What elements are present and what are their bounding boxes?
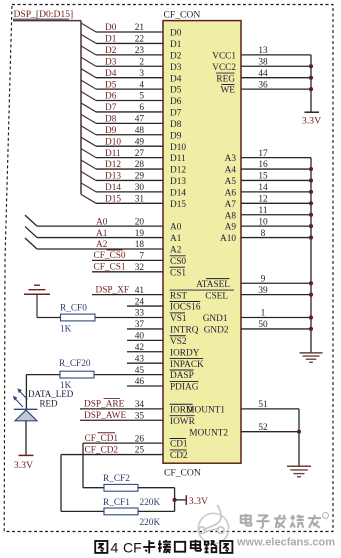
wire D12 (pin 28) with bus entry — [81, 160, 186, 176]
wire A0 (pin 20) — [25, 215, 182, 233]
svg-text:VCC1: VCC1 — [212, 51, 236, 61]
svg-text:D15: D15 — [105, 195, 121, 205]
svg-text:R_CF0: R_CF0 — [60, 304, 87, 314]
svg-text:A7: A7 — [225, 200, 237, 210]
svg-text:CF_CON: CF_CON — [164, 467, 201, 478]
svg-text:21: 21 — [135, 23, 145, 33]
svg-text:D6: D6 — [170, 97, 182, 107]
svg-text:CF_CD2: CF_CD2 — [85, 445, 119, 455]
wire A10 pin 8 — [220, 229, 311, 244]
svg-text:1K: 1K — [60, 324, 72, 334]
svg-text:R_CF1: R_CF1 — [103, 498, 130, 508]
svg-text:GND1: GND1 — [203, 314, 228, 324]
wire A8 pin 11 — [225, 206, 311, 221]
wire stub pin 37 INTRQ — [127, 320, 199, 335]
ground symbol (mount rail) — [287, 466, 311, 477]
wire REG pin 44 — [216, 69, 311, 84]
svg-text:CD2: CD2 — [170, 451, 188, 461]
svg-text:A0: A0 — [96, 217, 108, 227]
wire D13 (pin 29) with bus entry — [81, 171, 186, 187]
wire stub pin 43 INPACK — [127, 354, 204, 369]
svg-text:23: 23 — [135, 46, 145, 56]
svg-text:D13: D13 — [105, 172, 121, 182]
svg-text:R_CF2: R_CF2 — [103, 474, 130, 484]
junction dot MOUNT2 — [297, 430, 301, 434]
bus DSP data — [13, 19, 81, 194]
wire D5 (pin 4) with bus entry — [81, 80, 182, 96]
wire stub pin 46 PDIAG — [127, 377, 199, 392]
wire D10 (pin 49) with bus entry — [81, 137, 186, 153]
svg-text:31: 31 — [135, 195, 145, 205]
svg-text:IOCS16: IOCS16 — [170, 303, 201, 313]
svg-text:IOWR: IOWR — [170, 417, 196, 427]
svg-text:VS2: VS2 — [170, 337, 187, 347]
svg-text:52: 52 — [258, 423, 268, 433]
svg-text:DSP_ARE: DSP_ARE — [84, 400, 125, 410]
svg-text:D9: D9 — [105, 126, 117, 136]
junction dots VCC rail — [309, 64, 313, 91]
svg-text:43: 43 — [135, 354, 145, 364]
wire ground to R_CF0 — [37, 317, 61, 319]
svg-text:D13: D13 — [170, 177, 186, 187]
svg-text:44: 44 — [258, 69, 268, 79]
wire stub pin 40 VS2 — [127, 332, 187, 347]
watermark elecfans logo — [198, 506, 228, 544]
svg-text:INPACK: INPACK — [170, 360, 204, 370]
svg-text:DASP: DASP — [170, 371, 194, 381]
svg-text:11: 11 — [259, 206, 268, 216]
svg-text:37: 37 — [135, 320, 145, 330]
svg-text:4: 4 — [139, 80, 144, 90]
svg-text:19: 19 — [135, 229, 145, 239]
resistor R_CF0 1K — [60, 304, 95, 335]
svg-text:A9: A9 — [225, 223, 237, 233]
wire A9 pin 10 — [225, 217, 311, 232]
power 3.3V symbol (LED) — [14, 455, 34, 471]
wire VCC2 pin 38 — [212, 57, 311, 72]
svg-text:D9: D9 — [170, 131, 182, 141]
wire LED to 3.3V — [25, 421, 27, 456]
wire CSEL pin 39 — [186, 286, 311, 301]
ground symbol (address rail) — [300, 353, 323, 362]
svg-text:R_CF20: R_CF20 — [59, 359, 91, 369]
svg-text:27: 27 — [135, 149, 145, 159]
wire A2 (pin 18) — [25, 238, 182, 256]
svg-text:DSP_AWE: DSP_AWE — [84, 411, 126, 421]
svg-text:8: 8 — [261, 229, 266, 239]
wire WE pin 36 — [221, 80, 311, 95]
svg-text:24: 24 — [135, 297, 145, 307]
svg-text:D12: D12 — [105, 160, 121, 170]
svg-text:D10: D10 — [170, 143, 186, 153]
svg-text:D1: D1 — [170, 40, 182, 50]
power 3.3V symbol (top right) — [302, 112, 321, 126]
svg-text:29: 29 — [135, 172, 145, 182]
svg-text:WE: WE — [221, 86, 236, 96]
wire pin 45 DASP from R_CF20 — [94, 366, 194, 381]
ground symbol (left, inverted) — [24, 285, 50, 317]
svg-text:CF: CF — [123, 540, 142, 556]
svg-text:2: 2 — [139, 57, 144, 67]
wire GND1 pin 1 — [203, 309, 311, 324]
watermark text 电子发烧友 — [241, 513, 329, 529]
svg-text:D4: D4 — [105, 69, 117, 79]
wire DSP_XF (pin 41) to RST — [92, 285, 187, 301]
svg-text:A2: A2 — [170, 246, 182, 256]
wire D4 (pin 3) with bus entry — [81, 69, 182, 85]
svg-text:3.3V: 3.3V — [14, 460, 33, 471]
svg-text:D14: D14 — [105, 183, 121, 193]
wire CF_CD2 (pin 25) — [61, 445, 188, 461]
svg-text:38: 38 — [258, 57, 268, 67]
wire MOUNT1 pin 51 — [186, 400, 299, 415]
svg-text:39: 39 — [258, 286, 268, 296]
svg-text:D15: D15 — [170, 200, 186, 210]
wire D14 (pin 30) with bus entry — [81, 183, 186, 199]
svg-text:D10: D10 — [105, 137, 121, 147]
svg-text:CF_CS1: CF_CS1 — [94, 263, 126, 273]
svg-text:MOUNT1: MOUNT1 — [186, 405, 225, 415]
wire MOUNT1/MOUNT2 ground rail — [298, 409, 300, 466]
svg-text:51: 51 — [258, 400, 268, 410]
svg-text:MOUNT2: MOUNT2 — [189, 428, 228, 438]
svg-text:4: 4 — [111, 540, 119, 556]
IC U1 CF_CON body — [163, 21, 241, 464]
svg-text:30: 30 — [135, 183, 145, 193]
svg-text:VCC2: VCC2 — [212, 63, 236, 73]
wire CF_CS1 (pin 32) — [92, 263, 186, 279]
svg-text:32: 32 — [135, 263, 145, 273]
resistor R_CF1 220K — [103, 498, 160, 528]
wire D8 (pin 47) with bus entry — [81, 114, 182, 130]
svg-text:41: 41 — [135, 286, 145, 296]
svg-text:50: 50 — [258, 320, 268, 330]
svg-text:PDIAG: PDIAG — [170, 383, 199, 393]
svg-text:D8: D8 — [105, 115, 117, 125]
svg-text:13: 13 — [258, 46, 268, 56]
LED DATA_LED RED — [13, 388, 74, 421]
svg-text:35: 35 — [135, 411, 145, 421]
svg-text:D11: D11 — [170, 154, 186, 164]
wire address/ctrl ground rail — [310, 158, 312, 353]
svg-text:INTRQ: INTRQ — [170, 326, 199, 336]
svg-text:www.elecfans.com: www.elecfans.com — [236, 537, 335, 549]
wire D1 (pin 22) with bus entry — [81, 34, 182, 50]
svg-text:CF_CD1: CF_CD1 — [85, 434, 119, 444]
wire pin 33 VS1 from R_CF0 — [95, 309, 187, 324]
svg-text:D12: D12 — [170, 166, 186, 176]
svg-text:D2: D2 — [170, 51, 182, 61]
svg-text:D5: D5 — [170, 86, 182, 96]
svg-text:1: 1 — [261, 309, 266, 319]
resistor R_CF2 220K — [103, 474, 160, 508]
svg-text:28: 28 — [135, 160, 145, 170]
svg-text:A5: A5 — [225, 177, 237, 187]
svg-text:REG: REG — [216, 74, 235, 84]
wire ATASEL pin 9 — [196, 274, 311, 289]
wire DSP_AWE (pin 35) IOWR — [80, 411, 196, 427]
svg-text:18: 18 — [135, 240, 145, 250]
svg-text:25: 25 — [135, 446, 145, 456]
svg-text:3: 3 — [139, 69, 144, 79]
svg-text:220K: 220K — [140, 498, 161, 508]
svg-text:D7: D7 — [170, 109, 182, 119]
svg-text:9: 9 — [261, 274, 266, 284]
svg-text:D4: D4 — [170, 74, 182, 84]
svg-text:CS0: CS0 — [170, 257, 186, 267]
svg-text:D3: D3 — [170, 63, 182, 73]
wire stub pin 24 IOCS16 — [127, 297, 201, 312]
caption 图4 CF卡接口电路图 — [95, 540, 232, 556]
wire D11 (pin 27) with bus entry — [81, 149, 186, 165]
svg-text:D7: D7 — [105, 103, 117, 113]
svg-text:33: 33 — [135, 309, 145, 319]
wire D0 (pin 21) with bus entry — [81, 23, 182, 39]
svg-text:D0: D0 — [105, 23, 117, 33]
resistor R_CF20 1K — [59, 359, 94, 391]
svg-text:A2: A2 — [96, 240, 108, 250]
wire D2 (pin 23) with bus entry — [81, 46, 182, 62]
svg-text:10: 10 — [258, 217, 268, 227]
wire VCC1 pin 13 — [212, 46, 311, 61]
svg-text:20: 20 — [135, 217, 145, 227]
svg-text:CF_CS0: CF_CS0 — [94, 251, 126, 261]
svg-text:7: 7 — [139, 252, 144, 262]
svg-text:A6: A6 — [225, 188, 237, 198]
wire GND2 pin 50 — [204, 320, 311, 335]
wire D15 (pin 31) with bus entry — [81, 194, 186, 210]
svg-text:14: 14 — [258, 183, 268, 193]
wire MOUNT2 pin 52 — [189, 423, 299, 438]
wire A5 pin 15 — [225, 172, 311, 187]
svg-text:DSP_XF: DSP_XF — [96, 285, 130, 295]
wire DSP_ARE (pin 34) IORD — [80, 398, 193, 415]
svg-text:A10: A10 — [220, 234, 236, 244]
svg-text:D5: D5 — [105, 80, 117, 90]
svg-text:D2: D2 — [105, 46, 117, 56]
wire A4 pin 16 — [225, 160, 311, 175]
svg-text:A1: A1 — [96, 229, 108, 239]
designator CF_CON (top) — [164, 10, 201, 21]
svg-text:A3: A3 — [225, 154, 237, 164]
wire stub pin 42 IORDY — [127, 343, 200, 358]
svg-text:16: 16 — [258, 160, 268, 170]
svg-text:RED: RED — [40, 398, 59, 408]
wire A6 pin 14 — [225, 183, 311, 198]
svg-text:D6: D6 — [105, 92, 117, 102]
svg-text:40: 40 — [135, 332, 145, 342]
svg-text:26: 26 — [135, 434, 145, 444]
svg-text:CF_CON: CF_CON — [164, 10, 201, 21]
svg-text:36: 36 — [258, 80, 268, 90]
wire resistor commons to 3.3V — [138, 488, 186, 512]
svg-text:17: 17 — [258, 149, 268, 159]
wire D6 (pin 5) with bus entry — [81, 92, 182, 108]
svg-text:48: 48 — [135, 126, 145, 136]
svg-text:D3: D3 — [105, 57, 117, 67]
svg-text:D11: D11 — [105, 149, 121, 159]
svg-text:RST: RST — [170, 291, 187, 301]
designator CF_CON (bottom) — [164, 467, 201, 478]
svg-text:D14: D14 — [170, 188, 186, 198]
wire D7 (pin 6) with bus entry — [81, 103, 182, 119]
svg-text:A1: A1 — [170, 234, 182, 244]
wire CF_CD1 (pin 26) — [83, 433, 188, 450]
svg-text:D1: D1 — [105, 35, 117, 45]
svg-text:A4: A4 — [225, 166, 237, 176]
wire R_CF20 to LED — [26, 375, 60, 410]
port DSP_[D0:D15] label — [14, 9, 74, 20]
svg-text:IORDY: IORDY — [170, 348, 200, 358]
wire A3 pin 17 — [225, 149, 311, 164]
svg-text:CD1: CD1 — [170, 440, 188, 450]
svg-text:VS1: VS1 — [170, 314, 187, 324]
wire CF_CD2 to R_CF1 — [61, 455, 104, 512]
wire D3 (pin 2) with bus entry — [81, 57, 182, 73]
svg-text:49: 49 — [135, 137, 145, 147]
svg-text:A8: A8 — [225, 211, 237, 221]
junction dot resistor common — [173, 498, 177, 502]
svg-text:D8: D8 — [170, 120, 182, 130]
wire A1 (pin 19) — [25, 227, 182, 245]
svg-text:CSEL: CSEL — [205, 291, 228, 301]
junction dots address rail — [309, 167, 313, 331]
svg-text:CS1: CS1 — [170, 268, 186, 278]
svg-text:22: 22 — [135, 35, 145, 45]
svg-text:45: 45 — [135, 366, 145, 376]
wire CF_CD1 to R_CF2 — [83, 443, 104, 488]
svg-text:3.3V: 3.3V — [189, 496, 208, 507]
wire D9 (pin 48) with bus entry — [81, 126, 182, 142]
svg-text:220K: 220K — [140, 518, 161, 528]
svg-text:DSP_[D0:D15]: DSP_[D0:D15] — [14, 9, 74, 20]
wire CF_CS0 (pin 7) — [92, 250, 186, 267]
svg-text:42: 42 — [135, 343, 145, 353]
svg-text:DATA_LED: DATA_LED — [28, 389, 74, 399]
wire A7 pin 12 — [225, 195, 311, 210]
svg-text:47: 47 — [135, 115, 145, 125]
svg-text:5: 5 — [139, 92, 144, 102]
svg-text:12: 12 — [258, 195, 268, 205]
wire 3.3V power rail (VCC pins) — [310, 55, 312, 112]
svg-text:6: 6 — [139, 103, 144, 113]
svg-text:46: 46 — [135, 377, 145, 387]
svg-text:ATASEL: ATASEL — [196, 280, 230, 290]
svg-text:D0: D0 — [170, 29, 182, 39]
svg-text:15: 15 — [258, 172, 268, 182]
watermark url www.elecfans.com — [236, 537, 335, 549]
power 3.3V symbol (pull-ups) — [186, 495, 208, 507]
svg-text:34: 34 — [135, 400, 145, 410]
svg-text:GND2: GND2 — [204, 326, 229, 336]
svg-text:3.3V: 3.3V — [302, 116, 321, 127]
svg-text:A0: A0 — [170, 223, 182, 233]
